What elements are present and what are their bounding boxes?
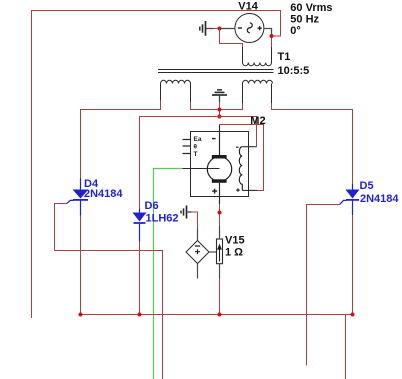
- wire: big left loop from V14 plus terminal: [32, 11, 281, 319]
- wire: ground stem to center tap: [219, 102, 221, 117]
- svg-text:50 Hz: 50 Hz: [290, 14, 319, 26]
- wire: V14 right pin down to transformer primary right lead: [271, 34, 273, 49]
- motor M2 bottom brush: [212, 179, 227, 183]
- wire: right secondary right lead to D5 anode: [272, 103, 353, 184]
- junction node bus at sensor: [218, 313, 222, 317]
- wire: armature top to field plus: [220, 125, 264, 191]
- SCR D5: [340, 184, 360, 215]
- svg-text:10:5:5: 10:5:5: [278, 65, 310, 77]
- SCR D4: [67, 178, 89, 216]
- svg-text:60 Vrms: 60 Vrms: [290, 2, 332, 14]
- svg-text:1 Ω: 1 Ω: [225, 246, 243, 258]
- svg-text:T: T: [194, 151, 198, 158]
- wire: V14 left pin down to transformer primary left lead: [220, 29, 243, 49]
- CCVS V15 diamond: [186, 229, 217, 279]
- label armature minus: [212, 138, 216, 140]
- ground symbol near V14: [200, 21, 214, 36]
- wire: ground to V14 left pin: [214, 28, 220, 30]
- wire: D6 cathode to bottom bus: [139, 242, 141, 315]
- svg-text:1LH62: 1LH62: [146, 212, 179, 224]
- wire: bottom bus: [81, 314, 353, 316]
- wire: left secondary left lead to D4 anode: [81, 101, 161, 179]
- wire: ground to CCVS plus output: [192, 212, 198, 229]
- svg-text:M2: M2: [250, 115, 265, 127]
- motor M2 body box: [191, 132, 249, 197]
- ground symbol at center tap: [212, 90, 227, 102]
- motor M2 field top pin: [242, 146, 256, 148]
- motor M2 shaft pin into armature center: [183, 168, 220, 170]
- label armature plus: [212, 189, 217, 194]
- motor M2 armature bottom pin: [219, 183, 221, 204]
- wire: green speed output wire: [154, 169, 183, 379]
- junction node bus at D5: [351, 313, 355, 317]
- wire: sensor bottom to bottom bus: [219, 279, 221, 315]
- svg-text:D5: D5: [360, 180, 374, 192]
- svg-text:2N4184: 2N4184: [84, 188, 123, 200]
- label field plus: [236, 188, 240, 191]
- svg-text:θ: θ: [194, 144, 198, 151]
- wire: center tap line: [191, 102, 243, 110]
- wire: D4 cathode to bottom bus: [80, 216, 82, 315]
- diode D6: [133, 209, 147, 242]
- label field minus: [236, 146, 239, 148]
- junction node at V14 right pin: [270, 34, 274, 38]
- svg-text:D6: D6: [145, 200, 159, 212]
- wire: armature bottom to current sensor V15: [219, 204, 221, 226]
- ground symbol near CCVS: [181, 206, 192, 219]
- svg-text:V15: V15: [225, 234, 245, 246]
- junction node at V14 left pin: [218, 27, 222, 31]
- motor M2 field winding: [239, 147, 242, 191]
- svg-text:V14: V14: [238, 1, 258, 13]
- junction node center tap upper: [218, 108, 222, 112]
- transformer T1 left secondary winding: [161, 80, 191, 102]
- wire: bus stub going off bottom edge: [345, 315, 347, 379]
- junction node bus at D4: [79, 313, 83, 317]
- motor M2 top brush: [212, 155, 227, 159]
- motor M2 armature top pin: [219, 125, 221, 156]
- voltage source V14: [220, 14, 272, 43]
- wire: D5 gate path: [307, 205, 340, 366]
- CCVS V15 current sense box: [217, 226, 223, 279]
- svg-text:Ea: Ea: [194, 136, 202, 143]
- motor M2 armature circle: [207, 157, 231, 181]
- transformer T1 right secondary winding: [243, 80, 273, 103]
- motor M2 field bottom pin: [242, 189, 257, 191]
- svg-text:0°: 0°: [290, 25, 301, 37]
- svg-text:2N4184: 2N4184: [360, 193, 399, 205]
- junction node bus at D6: [138, 313, 142, 317]
- wire: D5 cathode to bottom bus: [352, 215, 354, 315]
- svg-text:T1: T1: [278, 51, 291, 63]
- transformer T1 core: [158, 70, 274, 73]
- wire: center tap to D6 anode and to field minus: [140, 117, 257, 209]
- wire: D4 gate path: [55, 204, 163, 379]
- transformer T1 primary winding: [243, 47, 272, 66]
- junction node center tap lower: [218, 115, 222, 119]
- junction node on armature bottom wire: [218, 211, 222, 215]
- motor M2 left output pins Ea theta T: [183, 140, 191, 154]
